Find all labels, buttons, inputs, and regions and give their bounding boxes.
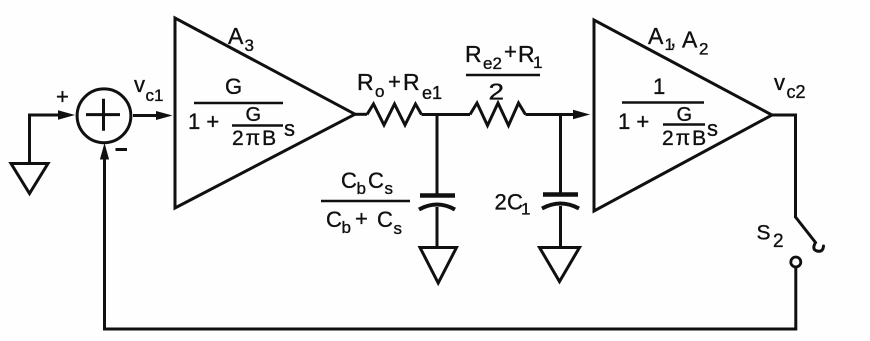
svg-text:b: b (342, 218, 351, 237)
svg-text:G: G (246, 104, 262, 126)
svg-text:+: + (56, 84, 69, 109)
svg-text:s: s (394, 219, 403, 238)
capacitor 2C1 (542, 195, 579, 209)
svg-text:s: s (707, 116, 718, 141)
svg-text:+: + (504, 39, 517, 64)
capacitor CbCs/(Cb+Cs) (419, 196, 455, 210)
wire (105, 157, 796, 329)
A1A2 transfer function (618, 74, 718, 150)
ground (420, 248, 457, 284)
svg-text:A: A (682, 27, 698, 53)
svg-text:G: G (677, 104, 693, 126)
wire (526, 113, 578, 116)
svg-text:1: 1 (533, 53, 542, 72)
summing junction (77, 89, 131, 143)
resistor Ro+Re1 (367, 104, 422, 125)
wire (355, 113, 367, 116)
svg-text:G: G (225, 74, 242, 99)
svg-text:S: S (757, 222, 771, 245)
label Ro+Re1 (357, 69, 442, 103)
svg-text:2: 2 (773, 231, 784, 252)
svg-text:v: v (774, 70, 785, 95)
wire (559, 206, 562, 246)
label CbCs/(Cb+Cs) (321, 168, 410, 238)
label 2C1 (495, 190, 531, 219)
svg-text:b: b (357, 179, 366, 198)
switch S2 blade (796, 217, 824, 251)
svg-text:2πB: 2πB (662, 127, 708, 150)
svg-text:2: 2 (489, 79, 505, 105)
svg-text:c2: c2 (787, 82, 806, 102)
svg-text:A: A (648, 23, 664, 49)
label A1,A2 (648, 23, 708, 59)
svg-text:+: + (388, 69, 401, 94)
ground (540, 248, 580, 282)
svg-text:s: s (284, 116, 295, 141)
svg-text:3: 3 (245, 36, 254, 55)
label (Re2+R1)/2 (465, 39, 542, 105)
svg-text:+: + (355, 206, 368, 231)
wire (133, 114, 158, 117)
svg-text:,: , (671, 29, 677, 51)
wire (422, 113, 471, 116)
svg-text:2πB: 2πB (232, 127, 278, 150)
svg-text:1: 1 (653, 74, 665, 99)
wire arrow into A1A2 (573, 110, 590, 119)
label vc2 (774, 70, 806, 102)
svg-text:C: C (377, 207, 393, 232)
A3 transfer function (188, 74, 295, 150)
wire (772, 115, 796, 218)
svg-text:C: C (368, 168, 384, 193)
svg-text:C: C (341, 168, 357, 193)
wire (436, 115, 439, 195)
op-amp A3 (175, 18, 355, 208)
svg-text:v: v (134, 72, 145, 97)
svg-text:1 +: 1 + (618, 109, 649, 134)
svg-text:e1: e1 (422, 83, 442, 103)
svg-text:1: 1 (521, 200, 530, 219)
svg-text:1 +: 1 + (188, 109, 219, 134)
svg-text:R: R (403, 69, 420, 95)
svg-text:o: o (375, 82, 384, 101)
wire (436, 207, 439, 246)
wire (30, 115, 62, 162)
switch S2 contact (791, 257, 801, 267)
svg-text:A: A (228, 23, 244, 49)
wire arrow into A3 (156, 111, 173, 120)
svg-text:R: R (357, 69, 374, 95)
wire arrow feedback into summing junction (100, 143, 109, 160)
op-amp A1,A2 (594, 20, 772, 211)
label vc1 (134, 72, 163, 105)
wire (559, 115, 562, 194)
svg-text:2: 2 (699, 40, 708, 59)
svg-text:2: 2 (495, 190, 507, 215)
svg-text:s: s (385, 179, 394, 198)
svg-text:R: R (465, 41, 482, 67)
node minus label (116, 148, 128, 151)
svg-text:C: C (326, 207, 342, 232)
svg-text:e2: e2 (483, 54, 502, 73)
svg-text:c1: c1 (146, 86, 164, 105)
wire arrow into summing junction (58, 110, 75, 119)
ground (11, 164, 48, 194)
label S2 (757, 222, 784, 253)
label A3 (228, 23, 254, 55)
resistor (Re2+R1)/2 (470, 103, 526, 126)
